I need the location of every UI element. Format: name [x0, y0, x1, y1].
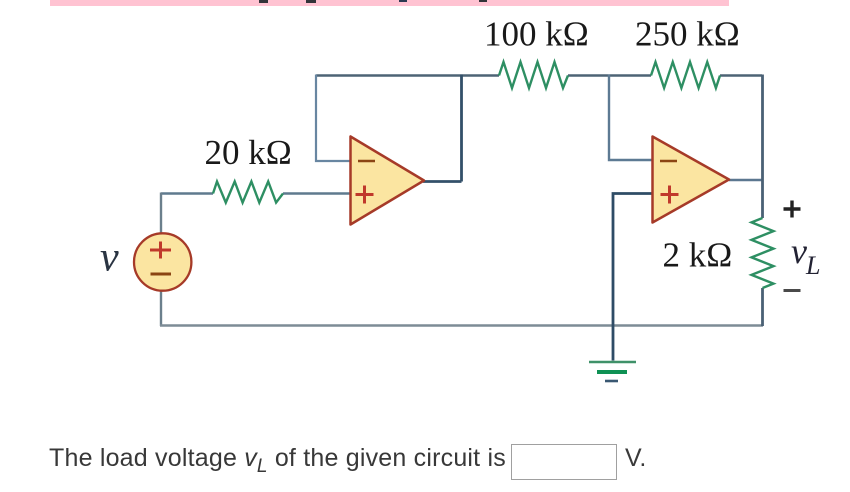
op-amp U2 plus sign [661, 186, 679, 204]
cut-off text mark 3 [399, 0, 407, 2]
wire: source bottom to ground rail [160, 290, 162, 326]
wire: vertical from top net to op-amp2 inverting input [609, 75, 653, 161]
voltage source plus sign [150, 242, 171, 259]
resistor RL 2k vertical zigzag [752, 218, 774, 288]
ground symbol [589, 362, 636, 381]
op-amp U1 minus sign [358, 160, 375, 163]
pink highlight bar [50, 0, 729, 6]
svg-text:250 kΩ: 250 kΩ [635, 15, 740, 54]
wire: left vertical from 20k down to source [160, 193, 162, 235]
resistor R1 20k zigzag [213, 182, 283, 203]
load polarity plus [784, 201, 801, 218]
svg-text:20 kΩ: 20 kΩ [205, 133, 292, 172]
cut-off text mark 2 [306, 0, 316, 3]
svg-text:v: v [100, 235, 119, 281]
wire: right vertical load branch [761, 75, 764, 327]
answer input box [511, 444, 617, 480]
op-amp U2 minus sign [660, 160, 677, 163]
wire: top horizontal net (op-amp1 feedback top) [316, 74, 762, 76]
svg-text:2 kΩ: 2 kΩ [663, 236, 733, 275]
op-amp U1 plus sign [356, 186, 374, 204]
op-amp U2 triangle [653, 137, 730, 223]
cut-off text mark 1 [259, 0, 268, 3]
svg-text:v: v [791, 231, 807, 271]
wire: feedback vertical to op-amp1 inverting input [316, 75, 351, 162]
question text [49, 444, 506, 478]
svg-text:100 kΩ: 100 kΩ [484, 15, 589, 54]
resistor R3 250k zigzag [651, 62, 720, 88]
voltage source minus sign [151, 273, 172, 276]
resistor R2 100k zigzag [499, 62, 568, 88]
wire: op-amp2 non-inverting input down to ground [613, 194, 653, 361]
wire: op-amp2 output to load node [729, 179, 763, 182]
wire: op-amp1 output to feedback node [423, 75, 462, 182]
load polarity minus [784, 289, 801, 292]
svg-text:L: L [805, 251, 820, 280]
op-amp U1 triangle [351, 137, 425, 225]
voltage source V circle [134, 233, 191, 290]
wire: bottom ground rail [160, 324, 763, 327]
wire: 20k resistor leads and plus input of op-amp1 [161, 192, 351, 194]
cut-off text mark 4 [479, 0, 487, 2]
trailing V. [625, 444, 646, 473]
